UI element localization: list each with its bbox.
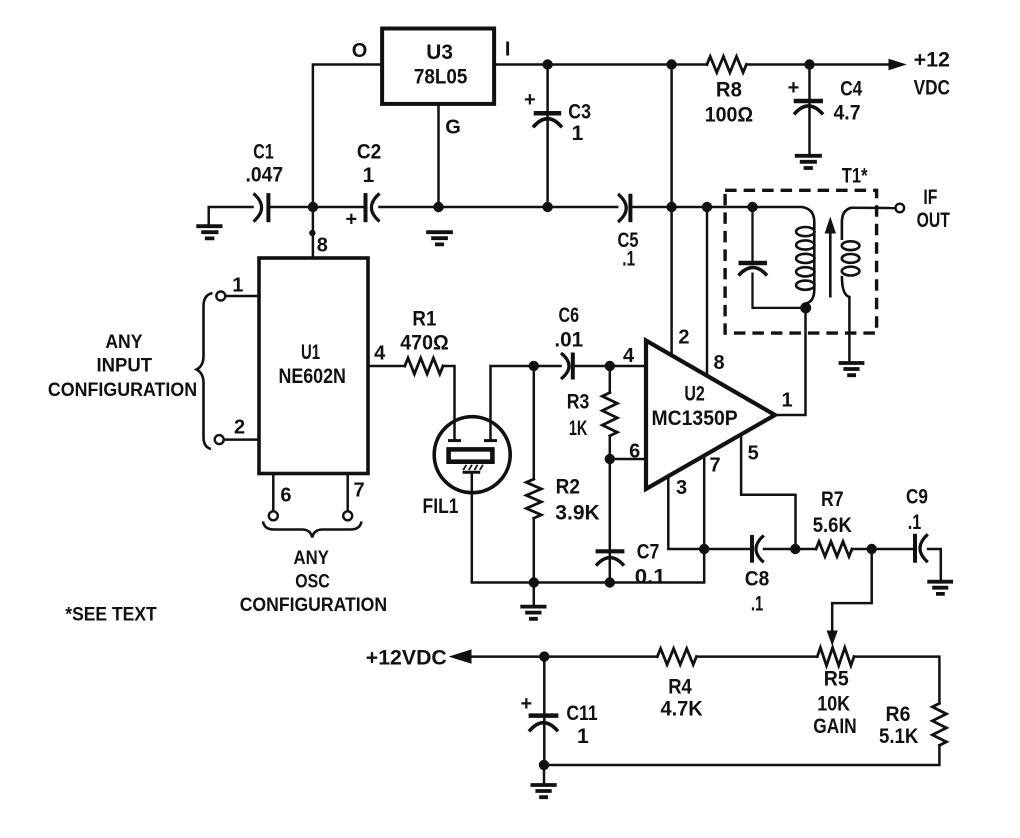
svg-text:2: 2 xyxy=(234,416,245,438)
svg-text:1: 1 xyxy=(363,164,375,187)
svg-text:7: 7 xyxy=(709,455,720,477)
svg-text:4: 4 xyxy=(374,343,386,365)
resistor R1 xyxy=(405,358,443,374)
wire R3 leads xyxy=(609,366,612,459)
svg-text:C1: C1 xyxy=(253,141,274,164)
wire U1 pin1 xyxy=(226,295,259,298)
wire C4 lead xyxy=(808,65,811,154)
wire C11 vertical lead xyxy=(543,657,546,765)
svg-text:FIL1: FIL1 xyxy=(423,495,459,518)
arrow +12 VDC (top right) xyxy=(889,59,907,71)
IF OUT terminal circle xyxy=(896,204,905,213)
capacitor C2 xyxy=(366,193,380,222)
brace left ANY INPUT xyxy=(197,293,213,449)
wire R1 to FIL1 left terminal xyxy=(443,366,455,439)
svg-text:.047: .047 xyxy=(246,164,284,187)
osc terminal circle pin7 xyxy=(343,511,352,520)
IC U3 box 78L05 xyxy=(382,29,494,104)
wire R5 to R6 xyxy=(854,657,939,704)
wire rail2 C1 to C2 xyxy=(270,206,363,209)
arrow R5 wiper xyxy=(827,631,838,647)
svg-text:CONFIGURATION: CONFIGURATION xyxy=(48,379,197,401)
resistor R2 xyxy=(526,479,541,518)
wire C6 to U2 pin4 xyxy=(575,365,647,368)
wire R6 to bottom return rail xyxy=(544,745,939,765)
svg-text:+: + xyxy=(346,209,358,231)
svg-text:5.1K: 5.1K xyxy=(879,725,918,748)
wire U2 pin1 to T1 primary bottom xyxy=(775,308,806,415)
svg-text:C4: C4 xyxy=(840,78,862,101)
svg-text:R1: R1 xyxy=(412,308,436,331)
ground (U3 G) xyxy=(426,232,453,244)
wire FIL1 right terminal up to C6 junction xyxy=(491,366,561,439)
resistor R4 xyxy=(657,649,696,665)
wire R4 to R5 xyxy=(697,655,818,658)
svg-text:470Ω: 470Ω xyxy=(400,331,449,354)
wire T1 secondary bottom to ground xyxy=(848,297,851,361)
wire R2 leads xyxy=(533,366,536,583)
svg-text:5: 5 xyxy=(748,443,759,465)
svg-text:CONFIGURATION: CONFIGURATION xyxy=(240,594,387,616)
wire T1 secondary to IF OUT terminal xyxy=(852,206,896,209)
svg-text:O: O xyxy=(352,40,368,62)
wire U2 pin6 xyxy=(610,458,646,461)
osc terminal circle pin6 xyxy=(269,511,278,520)
svg-text:4.7K: 4.7K xyxy=(660,697,702,720)
ground (mid rail) xyxy=(520,607,546,619)
svg-text:C7: C7 xyxy=(637,541,660,564)
svg-text:ANY: ANY xyxy=(105,331,142,353)
T1 primary winding xyxy=(796,207,814,308)
resistor R3 xyxy=(602,393,617,436)
svg-text:G: G xyxy=(445,117,461,139)
wire R7 to C9 xyxy=(852,548,913,551)
capacitor C1 xyxy=(254,193,269,222)
svg-text:1: 1 xyxy=(577,725,589,748)
svg-text:+12: +12 xyxy=(914,49,950,72)
ground (C4) xyxy=(795,156,822,168)
capacitor C8 xyxy=(752,535,764,563)
svg-text:1: 1 xyxy=(572,122,584,145)
svg-text:C9: C9 xyxy=(906,486,928,509)
wire rail2 C2 to C5 xyxy=(380,206,618,209)
wire ground stub mid rail xyxy=(533,583,536,605)
filter FIL1 xyxy=(434,417,510,493)
wire U2 pin5 path xyxy=(741,434,795,549)
svg-text:3.9K: 3.9K xyxy=(555,502,600,525)
svg-text:.1: .1 xyxy=(908,511,922,534)
wire C9 to ground xyxy=(928,549,941,580)
svg-text:GAIN: GAIN xyxy=(813,715,856,738)
svg-text:I: I xyxy=(505,39,511,61)
T1 tuning capacitor xyxy=(739,207,806,308)
svg-text:6: 6 xyxy=(629,441,640,463)
svg-text:R5: R5 xyxy=(824,667,849,690)
svg-text:6: 6 xyxy=(280,485,291,507)
capacitor C4 xyxy=(794,101,823,114)
wire ground stub C11 xyxy=(543,765,546,783)
capacitor C7 xyxy=(596,551,625,565)
capacitor C5 xyxy=(618,194,630,223)
svg-text:10K: 10K xyxy=(817,692,850,715)
svg-text:R2: R2 xyxy=(556,476,580,499)
svg-text:7: 7 xyxy=(353,479,364,501)
svg-text:1: 1 xyxy=(232,274,243,296)
svg-text:OUT: OUT xyxy=(917,209,950,232)
wire U1 pin6 xyxy=(272,474,275,512)
svg-text:+: + xyxy=(788,77,800,99)
wire U1 pin8 drop xyxy=(312,207,315,258)
brace bottom ANY OSC xyxy=(263,522,362,538)
svg-text:VDC: VDC xyxy=(914,77,950,100)
ground (rail2 left end) xyxy=(196,226,222,238)
svg-text:NE602N: NE602N xyxy=(278,365,346,388)
wire top rail U3 input to R8 xyxy=(494,63,707,66)
svg-text:4: 4 xyxy=(623,345,635,367)
svg-text:5.6K: 5.6K xyxy=(813,514,852,537)
svg-text:C11: C11 xyxy=(566,702,598,725)
svg-text:*SEE TEXT: *SEE TEXT xyxy=(65,604,157,626)
svg-text:0.1: 0.1 xyxy=(635,566,666,589)
svg-text:IF: IF xyxy=(923,186,937,209)
wire C8 to R7 xyxy=(764,548,816,551)
svg-text:C2: C2 xyxy=(357,141,381,164)
svg-text:R6: R6 xyxy=(886,703,911,726)
svg-text:78L05: 78L05 xyxy=(414,66,468,89)
wire U1 pin2 xyxy=(224,438,259,441)
svg-text:U3: U3 xyxy=(426,41,453,64)
svg-text:U1: U1 xyxy=(301,341,320,364)
svg-text:8: 8 xyxy=(317,235,328,257)
resistor R8 xyxy=(707,57,747,73)
svg-text:1: 1 xyxy=(781,389,792,411)
svg-text:R3: R3 xyxy=(567,391,590,414)
svg-text:4.7: 4.7 xyxy=(834,102,861,125)
PARTS xyxy=(405,57,947,746)
ground (C11) xyxy=(531,785,557,797)
op-amp U2 triangle MC1350P xyxy=(646,341,775,490)
svg-text:R7: R7 xyxy=(821,488,844,511)
resistor R6 xyxy=(932,703,946,745)
input terminal circle pin1 xyxy=(216,292,225,301)
wire U2 pin3 xyxy=(668,476,704,549)
wire pin8 line rail2 to U2 xyxy=(706,207,709,376)
wire C7 vertical lead xyxy=(609,459,612,583)
wire U3 ground lead xyxy=(437,104,440,207)
capacitor C9 xyxy=(915,534,928,563)
svg-text:+: + xyxy=(520,693,532,715)
capacitor C6 xyxy=(561,353,573,380)
svg-text:U2: U2 xyxy=(684,383,704,406)
svg-text:C6: C6 xyxy=(559,304,580,327)
svg-text:.1: .1 xyxy=(751,592,764,615)
resistor R7 xyxy=(816,542,852,557)
svg-text:T1*: T1* xyxy=(842,165,868,188)
transformer T1 dashed box xyxy=(725,190,877,333)
wire rail2 left end to C1 xyxy=(209,207,253,224)
T1 secondary winding xyxy=(842,208,860,297)
wire U3 output to left drop xyxy=(313,65,382,208)
svg-text:2: 2 xyxy=(678,326,689,348)
wire pin3-7 junction to C8 xyxy=(704,548,750,551)
wire R5 wiper tap xyxy=(832,549,872,633)
svg-text:.01: .01 xyxy=(554,329,583,352)
svg-text:.1: .1 xyxy=(622,248,635,271)
wire C3 vertical lead xyxy=(546,65,549,208)
capacitor C3 xyxy=(533,113,562,127)
wire bottom +12VDC rail xyxy=(466,655,657,658)
svg-text:MC1350P: MC1350P xyxy=(652,407,738,430)
potentiometer R5 xyxy=(817,648,854,666)
svg-text:ANY: ANY xyxy=(294,547,329,569)
capacitor C11 xyxy=(529,716,559,732)
ground (C9) xyxy=(927,582,953,594)
svg-text:C3: C3 xyxy=(568,101,591,124)
svg-text:INPUT: INPUT xyxy=(97,355,153,377)
IC U1 box NE602N xyxy=(259,258,368,474)
wire U1 pin4 to R1 xyxy=(368,365,405,368)
svg-text:100Ω: 100Ω xyxy=(705,104,753,127)
svg-text:OSC: OSC xyxy=(295,570,329,592)
svg-text:R4: R4 xyxy=(668,675,692,698)
wire U1 pin7 xyxy=(346,474,349,512)
wire top rail R8 to +12VDC arrow xyxy=(746,63,891,66)
svg-text:+: + xyxy=(524,89,536,111)
svg-text:+12VDC: +12VDC xyxy=(366,647,447,670)
svg-text:3: 3 xyxy=(676,477,687,499)
arrow +12VDC (bottom left) xyxy=(449,649,472,663)
svg-text:R8: R8 xyxy=(716,79,742,102)
svg-text:C8: C8 xyxy=(745,568,770,591)
wire pin2 line top rail to U2 xyxy=(670,65,673,356)
T1 coupling arrow xyxy=(825,217,836,298)
svg-text:8: 8 xyxy=(713,352,724,374)
wire FIL1 bottom lead and mid ground rail xyxy=(472,456,704,583)
input terminal circle pin2 xyxy=(215,435,224,444)
wire rail2 C5 to T1 primary xyxy=(632,206,802,209)
svg-text:1K: 1K xyxy=(569,417,588,440)
ground (T1 secondary) xyxy=(839,363,865,375)
